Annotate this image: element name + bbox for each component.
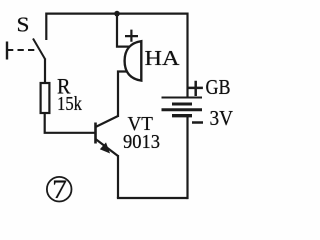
transistor VT emitter arrowhead: [100, 143, 110, 153]
svg-text:15k: 15k: [57, 93, 83, 115]
battery GB plate 4 (short thick): [172, 114, 192, 117]
speaker HA plus sign: [125, 30, 138, 42]
svg-text:9013: 9013: [123, 131, 160, 153]
svg-text:S: S: [17, 13, 30, 37]
wire right rail upper (to battery +): [186, 13, 188, 98]
wire bottom rail: [117, 197, 188, 199]
transistor VT emitter lead with arrow: [96, 139, 119, 156]
speaker HA body: [125, 41, 142, 80]
battery GB minus sign: [192, 121, 203, 124]
svg-text:3V: 3V: [210, 106, 234, 130]
wire resistor to base: [45, 113, 96, 133]
wire switch to resistor: [44, 59, 46, 84]
battery GB plate 2 (short thick): [172, 103, 192, 106]
battery GB plate 1 (long thin): [162, 97, 203, 99]
resistor R1 body: [41, 83, 50, 113]
wire top rail: [46, 13, 187, 15]
wire collector up to HA: [118, 72, 130, 118]
wire junction down to HA + terminal: [117, 14, 130, 47]
node junction dot on top rail: [114, 11, 120, 17]
battery GB plate 3 (long thick): [162, 108, 203, 111]
switch S blade: [33, 39, 45, 60]
switch S button bar: [6, 42, 8, 60]
figure number circle 7: [47, 177, 72, 202]
battery GB plus sign: [188, 81, 203, 96]
switch S dashed actuator: [7, 49, 38, 51]
wire switch top contact: [45, 13, 47, 41]
svg-text:GB: GB: [206, 75, 231, 99]
transistor VT base bar: [94, 123, 97, 144]
transistor VT collector lead: [96, 116, 119, 127]
wire emitter down: [117, 155, 119, 198]
svg-text:7: 7: [52, 174, 67, 204]
svg-text:HA: HA: [145, 46, 181, 70]
wire right rail lower (battery - to bottom): [186, 117, 188, 199]
